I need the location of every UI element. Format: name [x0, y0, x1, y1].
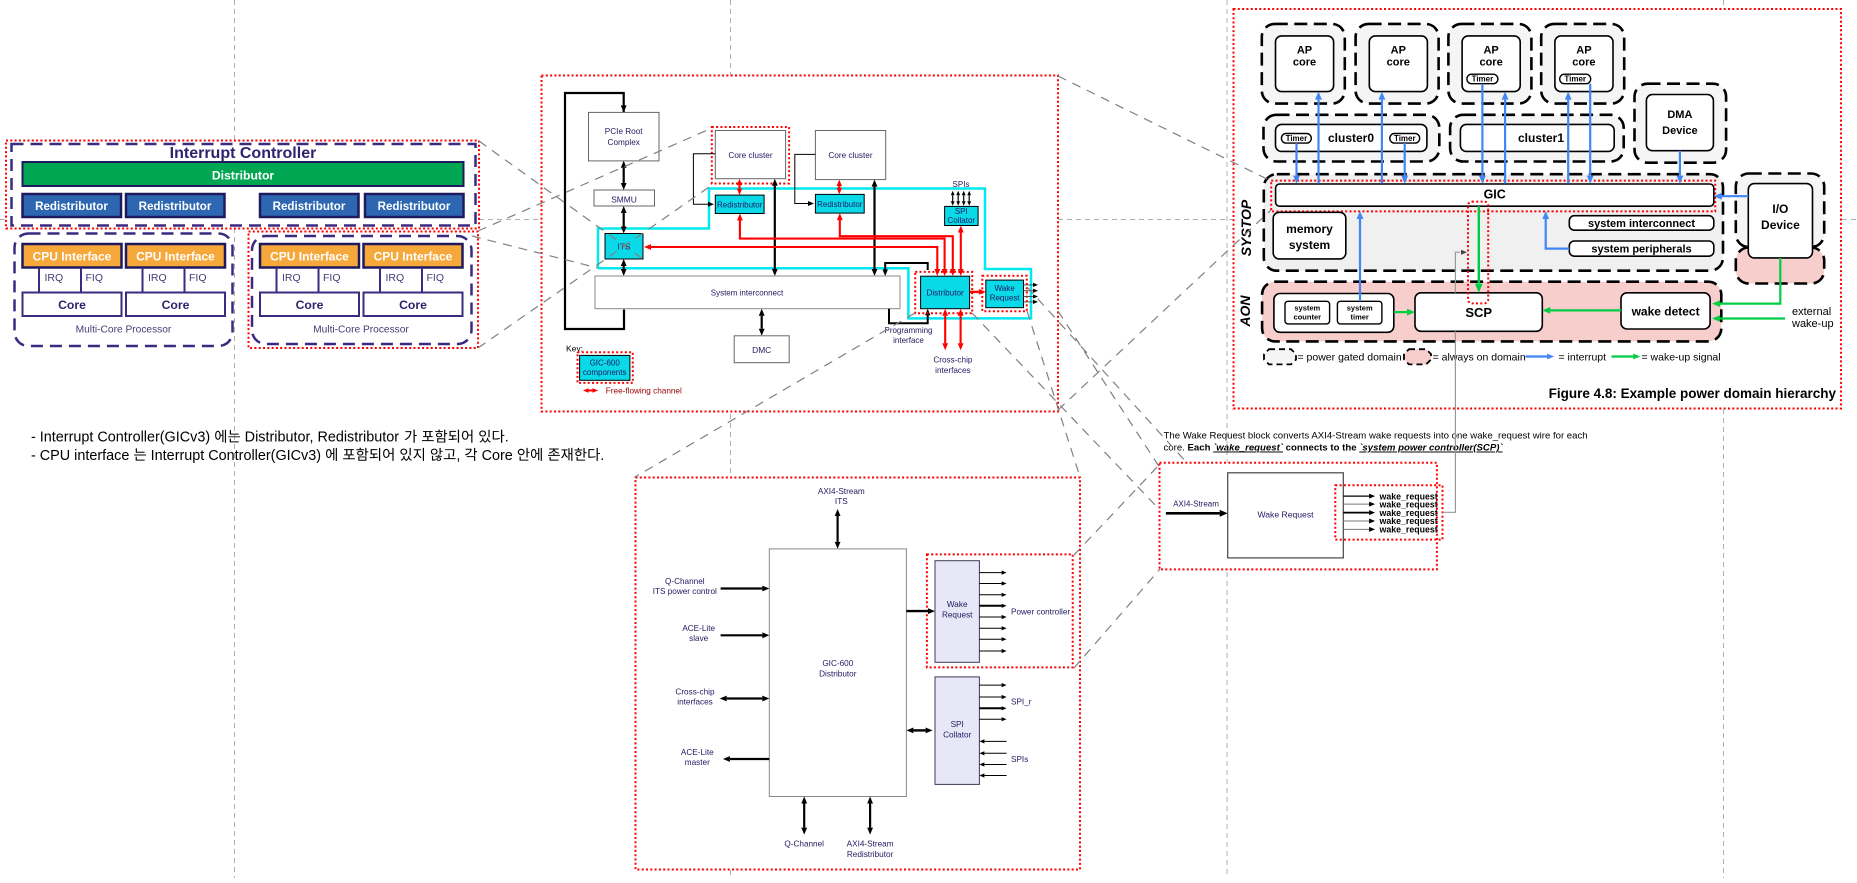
wake request power red sub-box: [927, 554, 1073, 667]
svg-text:,: ,: [456, 448, 464, 464]
svg-text:interfaces: interfaces: [677, 698, 713, 707]
svg-text:Redistributor: Redistributor: [35, 200, 108, 213]
svg-text:Wake: Wake: [947, 600, 968, 609]
green wire IO to wake detect: [1718, 258, 1780, 304]
svg-text:Redistributor: Redistributor: [847, 850, 894, 859]
svg-text:system: system: [1289, 238, 1330, 252]
svg-text:Redistributor: Redistributor: [717, 201, 763, 210]
distributor cyan box: [921, 276, 970, 309]
blue arrow system peripherals to GIC: [1546, 216, 1570, 249]
programming interface wire: [885, 263, 928, 270]
page break horizontal y=219 mid-left: [479, 219, 545, 221]
svg-text:interface: interface: [893, 336, 924, 345]
cluster0 group: [1264, 115, 1440, 162]
svg-text:Multi-Core Processor: Multi-Core Processor: [76, 325, 172, 336]
mini wake_request arrow 5: [1343, 528, 1369, 530]
mini wake_request arrow 3: [1343, 512, 1369, 514]
arrow cross-chip bottom: [727, 697, 763, 699]
leader line MCP to core cluster bottom: [478, 185, 712, 348]
SPIs in arrow 1: [984, 740, 1006, 742]
svg-text:Redistributor: Redistributor: [273, 200, 346, 213]
svg-text:slave: slave: [689, 634, 709, 643]
svg-text:system peripherals: system peripherals: [1591, 244, 1691, 256]
programming interface lower wire: [889, 309, 928, 324]
svg-text:Collator: Collator: [943, 731, 971, 740]
red channel SPI collator-distributor: [960, 233, 962, 270]
svg-text:CPU Interface: CPU Interface: [33, 250, 112, 264]
svg-text:ACE-Lite: ACE-Lite: [682, 624, 715, 633]
svg-text:AXI4-Stream: AXI4-Stream: [818, 487, 865, 496]
svg-text:Redistributor: Redistributor: [817, 200, 863, 209]
svg-text:Core: Core: [399, 298, 427, 312]
svg-text:Free-flowing channel: Free-flowing channel: [606, 387, 682, 396]
wake request out arrow 2: [979, 583, 1001, 585]
leader line GIC system to Fig4.8 GIC bottom: [1058, 210, 1271, 410]
CPU Interface box R2: [364, 244, 463, 268]
redistributor 2 cyan box: [815, 194, 864, 213]
svg-text:AP: AP: [1297, 45, 1312, 57]
AP core group 4: [1541, 24, 1624, 104]
svg-text:FIQ: FIQ: [323, 272, 341, 284]
blue arrow GIC to AP core 2: [1381, 100, 1383, 184]
wake request out arrow 4: [979, 605, 1001, 607]
arrow distributor-SPI collator bottom: [913, 729, 925, 731]
page break vertical x=234 lower: [234, 228, 236, 878]
svg-text:Key:: Key:: [566, 344, 583, 354]
svg-text:Wake Request: Wake Request: [1257, 510, 1314, 520]
svg-text:GIC-600: GIC-600: [822, 659, 853, 668]
svg-text:cluster0: cluster0: [1328, 131, 1374, 145]
page break vertical x=1227 upper: [1226, 0, 1228, 463]
gray wire mini to SCP upper: [1455, 252, 1460, 293]
bottom SPI collator box: [935, 677, 979, 785]
SMMU box: [594, 190, 655, 206]
system peripherals box: [1569, 241, 1714, 256]
green arrow wake detect to SCP: [1550, 309, 1621, 311]
wake request out arrow 5: [979, 616, 1001, 618]
svg-text:SPI: SPI: [951, 720, 964, 729]
arrow ACE-Lite slave: [721, 634, 763, 636]
SCP box: [1415, 293, 1542, 332]
svg-text:CPU Interface: CPU Interface: [270, 250, 349, 264]
leader line wake request box to mini diagram top: [1027, 287, 1188, 464]
svg-text:DMC: DMC: [752, 345, 771, 355]
green arrow external wake-up: [1720, 317, 1785, 319]
SPI input arrow 3: [963, 195, 965, 201]
interrupt controller red highlight box: [6, 141, 479, 229]
GIC box: [1276, 184, 1714, 206]
SPI collator cyan box: [945, 206, 979, 225]
wake request out arrow 8: [979, 650, 1001, 652]
svg-text:DMA: DMA: [1667, 109, 1692, 121]
red highlight around wake path: [1468, 202, 1488, 304]
svg-text:FIQ: FIQ: [189, 272, 207, 284]
page break vertical x=730 top: [730, 0, 732, 76]
svg-text:Core: Core: [296, 298, 324, 312]
svg-text:Timer: Timer: [1564, 75, 1586, 84]
bottom diagram red highlight border: [636, 478, 1081, 870]
svg-text:AP: AP: [1391, 45, 1406, 57]
svg-text:- CPU interface: - CPU interface: [31, 448, 133, 464]
svg-text:IRQ: IRQ: [45, 272, 64, 284]
svg-text:FIQ: FIQ: [427, 272, 445, 284]
AP core box 4: [1555, 36, 1613, 92]
IRQ FIQ wires L2: [142, 268, 144, 293]
svg-text:wake-up: wake-up: [1791, 318, 1834, 330]
cluster1 group: [1450, 115, 1624, 162]
svg-text:Distributor: Distributor: [819, 670, 857, 679]
svg-text:SPIs: SPIs: [1011, 755, 1028, 764]
arrow AXI4-stream ITS: [836, 516, 838, 542]
page break horizontal y=219 right: [1842, 219, 1857, 221]
AP core box 3: [1462, 36, 1520, 92]
svg-text:Core: Core: [58, 298, 86, 312]
svg-text:Interrupt Controller: Interrupt Controller: [170, 145, 317, 162]
svg-text:.: .: [600, 448, 604, 464]
svg-text:Distributor, Redistributor: Distributor, Redistributor: [241, 430, 403, 446]
cyan GIC-600 envelope outline: [598, 189, 1031, 319]
leader line distributor to wake-request diagram: [972, 313, 1158, 508]
svg-text:SMMU: SMMU: [611, 195, 637, 205]
svg-text:Wake: Wake: [995, 284, 1016, 293]
figure 4.8 red border: [1234, 9, 1842, 409]
red arrow cluster2-redistributor2: [838, 186, 840, 188]
page break vertical x=1227 lower: [1226, 572, 1228, 878]
svg-text:cluster1: cluster1: [1518, 131, 1564, 145]
blue arrow timer cluster0 left: [1295, 143, 1297, 176]
arrow AXI4-stream redistributor: [869, 804, 871, 828]
arrow q-channel ITS: [721, 587, 763, 589]
page break vertical x=234 upper: [234, 0, 236, 140]
IRQ FIQ wires R2: [379, 268, 381, 293]
red cross-chip arrow 2: [960, 316, 962, 344]
leader line power sub-box to mini diagram TL: [1074, 464, 1160, 555]
svg-text:system interconnect: system interconnect: [1588, 218, 1695, 230]
wake request out arrow 3: [979, 594, 1001, 596]
SPI_r out arrow 4: [979, 718, 1001, 720]
wake request output arrow 4: [1024, 301, 1034, 303]
svg-text:system: system: [1347, 304, 1373, 313]
AP core group 2: [1356, 24, 1439, 104]
CPU Interface box L1: [23, 244, 122, 268]
green arrow GIC to SCP: [1478, 206, 1480, 284]
GIC-600 distributor big box: [769, 549, 906, 797]
svg-text:- Interrupt Controller(GICv3): - Interrupt Controller(GICv3): [31, 430, 214, 446]
I/O device box: [1748, 184, 1812, 258]
AP core group 1: [1262, 24, 1345, 104]
svg-text:Programming: Programming: [884, 326, 932, 335]
SPIs in arrow 4: [984, 775, 1006, 777]
red arrow cluster1-redistributor1: [738, 185, 740, 188]
black arrow cluster2-sysint: [873, 187, 875, 269]
SPI input arrow 2: [957, 195, 959, 201]
svg-text:Cross-chip: Cross-chip: [933, 356, 973, 365]
system interconnect box: [595, 276, 900, 309]
svg-text:core: core: [1293, 57, 1316, 69]
svg-text:ITS: ITS: [835, 497, 848, 506]
cluster2 to redistributor2 wire: [795, 154, 816, 203]
wake request output arrow 3: [1024, 296, 1034, 298]
red arrow distributor-wake request: [970, 291, 979, 293]
leader line IC box to ITS top: [479, 141, 643, 259]
svg-text:Power controller: Power controller: [1011, 608, 1070, 617]
leader line MCP to core cluster top: [478, 128, 712, 231]
redistributor box 3: [260, 194, 359, 217]
CPU Interface box R1: [260, 244, 359, 268]
svg-text:CPU Interface: CPU Interface: [374, 250, 453, 264]
svg-text:SCP: SCP: [1465, 305, 1492, 320]
svg-text:Timer: Timer: [1286, 134, 1308, 143]
blue arrow GIC to AP core 3: [1504, 100, 1506, 184]
svg-text:ITS power control: ITS power control: [653, 587, 717, 596]
page break vertical x=1723 lower: [1723, 409, 1725, 878]
AP core box 1: [1276, 36, 1334, 92]
page break vertical x=1723 top: [1723, 0, 1725, 9]
system counter box: [1285, 301, 1330, 324]
left multi-core processor dashed box: [15, 234, 233, 347]
I/O device group: [1736, 174, 1824, 248]
Core box L1: [23, 293, 122, 317]
svg-text:IRQ: IRQ: [386, 272, 405, 284]
svg-text:master: master: [685, 758, 710, 767]
svg-text:Timer: Timer: [1394, 134, 1416, 143]
leader line wake request box to bottom diagram corner: [1027, 311, 1080, 477]
black arrow cluster1-sysint: [774, 186, 776, 269]
svg-text:Core: Core: [162, 298, 190, 312]
legend interrupt arrow: [1525, 355, 1547, 357]
svg-text:Timer: Timer: [1472, 75, 1494, 84]
page break vertical x=730 middle: [730, 396, 732, 486]
svg-text:wake_request: wake_request: [1379, 525, 1438, 535]
blue arrow timer AP4: [1589, 84, 1591, 176]
svg-text:core: core: [1479, 57, 1502, 69]
svg-text:Cross-chip: Cross-chip: [675, 688, 715, 697]
redistributor box 4: [365, 194, 464, 217]
mini wake_request arrow 4: [1343, 520, 1369, 522]
mini outputs red sub-box: [1335, 485, 1442, 539]
wake request red highlight: [982, 276, 1027, 311]
SPIs in arrow 2: [984, 752, 1006, 754]
right multi-core processor dashed box: [252, 236, 472, 344]
svg-text:wake detect: wake detect: [1631, 305, 1700, 319]
svg-text:memory: memory: [1286, 222, 1333, 236]
arrow ACE-Lite master: [730, 758, 769, 760]
svg-text:SPI: SPI: [955, 207, 968, 216]
wake request out arrow 1: [979, 572, 1001, 574]
svg-text:timer: timer: [1351, 313, 1369, 322]
leader line middle-right to mini diagram left: [1058, 311, 1160, 468]
svg-text:Q-Channel: Q-Channel: [784, 840, 824, 849]
AP core group 3: [1448, 24, 1531, 104]
arrow ITS-sysint: [623, 266, 625, 269]
red channel to redistributor1: [740, 220, 945, 269]
AON group: [1262, 282, 1721, 342]
svg-text:SPI_r: SPI_r: [1011, 698, 1032, 707]
cluster0 inner box: [1276, 124, 1427, 151]
mini wake_request arrow 2: [1343, 503, 1369, 505]
cluster1 to redistributor1 wire: [693, 154, 715, 205]
svg-text:= interrupt: = interrupt: [1559, 352, 1607, 364]
svg-text:AON: AON: [1237, 295, 1253, 328]
svg-text:System interconnect: System interconnect: [711, 289, 784, 298]
svg-text:IRQ: IRQ: [148, 272, 167, 284]
svg-text:= always on domain: = always on domain: [1433, 352, 1526, 364]
distributor green bar: [23, 162, 464, 186]
svg-text:The Wake Request block convert: The Wake Request block converts AXI4-Str…: [1164, 431, 1588, 442]
AON inner white box: [1274, 294, 1394, 333]
wake request cyan box: [986, 280, 1024, 308]
arrow q-channel bottom: [803, 804, 805, 828]
page break vertical x=730 bottom: [730, 870, 732, 878]
redistributor box 2: [126, 194, 225, 217]
SPI_r out arrow 2: [979, 696, 1001, 698]
blue arrow DMA to GIC: [1679, 151, 1681, 176]
arrow SMMU-ITS: [623, 213, 625, 227]
SPIs in arrow 3: [984, 764, 1006, 766]
svg-text:SPIs: SPIs: [953, 180, 970, 189]
memory system box: [1273, 212, 1346, 259]
arrow AXI4-Stream mini: [1166, 512, 1220, 515]
svg-text:external: external: [1792, 306, 1831, 318]
IRQ FIQ wires R1: [276, 268, 278, 293]
Core box R1: [260, 293, 359, 317]
arrow PCIe-SMMU: [623, 168, 625, 183]
wake detect box: [1621, 293, 1710, 329]
svg-text:SYSTOP: SYSTOP: [1238, 199, 1254, 256]
blue arrow GIC to AP core 1: [1317, 100, 1319, 184]
Core box R2: [364, 293, 463, 317]
key GIC-600 components red highlight: [578, 352, 633, 383]
core cluster 2 box: [815, 131, 885, 180]
svg-text:system: system: [1294, 304, 1320, 313]
svg-text:AXI4-Stream: AXI4-Stream: [847, 840, 894, 849]
svg-text:Q-Channel: Q-Channel: [665, 577, 705, 586]
page break horizontal y=219 left: [0, 219, 6, 221]
timer pill AP core 3: [1467, 74, 1498, 84]
red channel to redistributor2: [840, 220, 953, 269]
interrupt controller purple dashed box: [12, 144, 476, 226]
arrow sysint-DMC: [761, 316, 763, 329]
svg-text:= wake-up signal: = wake-up signal: [1642, 352, 1721, 364]
svg-text:Redistributor: Redistributor: [139, 200, 212, 213]
svg-text:Collator: Collator: [948, 216, 976, 225]
svg-text:core: core: [1572, 57, 1595, 69]
leader line power sub-box to mini diagram BL: [1074, 569, 1160, 668]
blue arrow IO to GIC: [1722, 195, 1749, 197]
feedback loop wire PCIe: [565, 93, 624, 329]
svg-text:= power gated domain: = power gated domain: [1298, 352, 1402, 364]
green arrow timer to SCP: [1394, 311, 1407, 313]
cluster1 inner box: [1460, 124, 1614, 151]
blue arrow system timer to GIC: [1359, 219, 1361, 301]
key GIC-600 components cyan box: [580, 355, 630, 380]
key free-flowing red arrow: [589, 390, 593, 392]
wake request output arrow 1: [1024, 284, 1034, 286]
page break horizontal y=219 mid-right: [1058, 219, 1233, 221]
SPI_r out arrow 1: [979, 684, 1001, 686]
svg-text:Core cluster: Core cluster: [828, 151, 872, 160]
svg-text:AP: AP: [1483, 45, 1498, 57]
timer pill cluster0 left: [1281, 134, 1311, 144]
red highlight around right multi-core processor: [249, 232, 479, 349]
svg-text:Complex: Complex: [608, 138, 640, 147]
legend power gated octagon: [1264, 349, 1296, 364]
PCIe Root Complex box: [589, 112, 660, 160]
CPU Interface box L2: [126, 244, 225, 268]
blue arrow timer AP3: [1481, 84, 1483, 176]
mini wake_request arrow 1: [1343, 495, 1369, 497]
svg-text:.: .: [505, 430, 509, 446]
blue arrow timer cluster0 right: [1404, 143, 1406, 176]
DMA device box: [1646, 95, 1713, 151]
svg-text:Device: Device: [1761, 218, 1800, 232]
svg-text:core: core: [1387, 57, 1410, 69]
GIC-600 system red highlight border: [542, 76, 1059, 412]
I/O device pink box: [1736, 248, 1824, 284]
SPI input arrow 4: [968, 195, 970, 201]
svg-text:Redistributor: Redistributor: [378, 200, 451, 213]
bottom wake request box: [935, 561, 979, 663]
leader line IC box to ITS bottom: [472, 236, 598, 268]
svg-text:IRQ: IRQ: [282, 272, 301, 284]
timer pill AP core 4: [1560, 74, 1591, 84]
svg-text:FIQ: FIQ: [86, 272, 104, 284]
svg-text:Core: Core: [478, 448, 517, 464]
SYSTOP group: [1264, 174, 1723, 271]
wake request output arrow 2: [1024, 290, 1034, 292]
svg-text:ACE-Lite: ACE-Lite: [681, 748, 714, 757]
system interconnect box: [1569, 216, 1714, 231]
svg-text:core. Each `wake_request` conn: core. Each `wake_request` connects to th…: [1164, 443, 1504, 454]
svg-text:GIC-600: GIC-600: [590, 359, 621, 368]
SPI_r out arrow 3: [979, 707, 1001, 709]
svg-text:components: components: [583, 368, 627, 377]
svg-text:Request: Request: [942, 611, 973, 620]
svg-text:counter: counter: [1294, 313, 1322, 322]
redistributor box 1: [23, 194, 122, 217]
svg-text:Request: Request: [990, 294, 1021, 303]
ITS cyan box: [605, 234, 643, 260]
DMA device group: [1635, 84, 1727, 163]
core cluster 1 box: [715, 131, 785, 179]
svg-text:Device: Device: [1662, 125, 1697, 137]
leader line GIC system to Fig4.8 GIC top: [1058, 76, 1271, 181]
SPI input arrow 1: [952, 195, 954, 201]
mini wake request white box: [1228, 473, 1344, 558]
svg-text:AP: AP: [1576, 45, 1591, 57]
legend always on octagon: [1404, 349, 1431, 364]
svg-text:Figure 4.8: Example power doma: Figure 4.8: Example power domain hierarc…: [1549, 386, 1837, 401]
svg-text:Multi-Core Processor: Multi-Core Processor: [313, 325, 409, 336]
IRQ FIQ wires L1: [38, 268, 40, 293]
AP core box 2: [1369, 36, 1427, 92]
mini wake request red box: [1160, 463, 1437, 570]
GIC red highlight: [1271, 181, 1715, 212]
distributor red highlight: [915, 272, 972, 313]
svg-text:AXI4-Stream: AXI4-Stream: [1173, 500, 1219, 509]
svg-text:Distributor: Distributor: [212, 169, 275, 183]
blue arrow GIC to AP core 4: [1567, 100, 1569, 184]
core cluster 1 red highlight: [712, 127, 789, 184]
svg-text:interfaces: interfaces: [935, 366, 971, 375]
wake request out arrow 7: [979, 638, 1001, 640]
wake request out arrow 6: [979, 627, 1001, 629]
red channel to ITS: [651, 247, 937, 269]
gray wire mini to SCP: [1443, 331, 1456, 512]
svg-text:Interrupt Controller(GICv3): Interrupt Controller(GICv3): [147, 448, 325, 464]
svg-text:I/O: I/O: [1772, 202, 1788, 216]
svg-text:Distributor: Distributor: [926, 288, 964, 297]
